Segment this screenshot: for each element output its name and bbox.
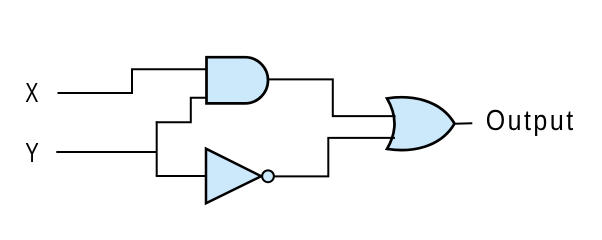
wire: NOT gate output to OR gate input 2	[274, 138, 395, 177]
wire: Y branch to AND gate input 2	[156, 98, 207, 123]
svg-text:Y: Y	[25, 137, 39, 168]
wire: input Y horizontal lead	[56, 151, 156, 153]
wire: Y junction vertical segment	[156, 121, 158, 176]
wire: Y branch to NOT gate input	[156, 175, 206, 177]
NOT gate (inverter) U2 triangle	[206, 149, 261, 204]
AND gate U1	[207, 57, 269, 103]
wire: OR gate output lead	[455, 122, 473, 124]
svg-text:Output: Output	[486, 104, 574, 136]
OR gate U3	[387, 97, 455, 150]
wire: AND gate output to OR gate input 1	[268, 79, 396, 116]
NOT gate U2 inversion bubble	[262, 170, 274, 182]
wire: input X to AND gate input 1	[58, 69, 208, 93]
svg-text:X: X	[25, 77, 38, 108]
